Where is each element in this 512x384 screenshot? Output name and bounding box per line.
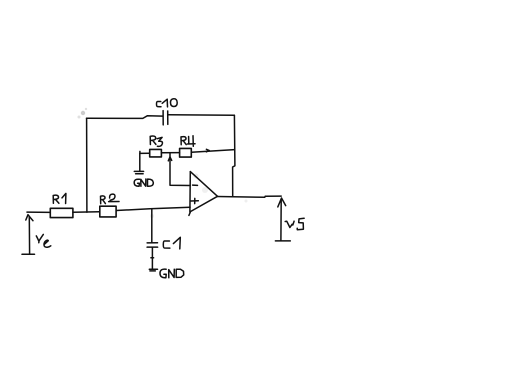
wire output	[218, 196, 282, 197]
label c10	[157, 99, 178, 107]
wire right vertical feedback leg	[233, 115, 235, 196]
ground (C1 branch)	[149, 269, 157, 271]
label GND (C1 branch)	[160, 269, 184, 278]
arrow right on R4 wire	[206, 149, 209, 152]
label R4	[181, 136, 195, 147]
label R3	[150, 136, 162, 146]
wire c1 branch upper	[151, 209, 153, 242]
label c1	[163, 237, 180, 249]
wire R1 to R2	[73, 211, 100, 214]
op-amp U1	[189, 172, 218, 216]
resistor R4	[180, 148, 192, 157]
resistor R3	[150, 149, 162, 157]
label VS	[285, 218, 304, 229]
wire R3 to R4	[161, 152, 179, 154]
capacitor C1	[147, 243, 158, 247]
label R2	[101, 194, 120, 204]
label R1	[53, 193, 66, 203]
capacitor C10	[163, 111, 168, 125]
arrow up on junction wire	[168, 157, 171, 161]
ground (R3 branch)	[134, 171, 143, 173]
wire R2 to noninverting input	[116, 207, 190, 210]
wire input left segment	[27, 211, 50, 213]
node VS arrow	[275, 198, 290, 241]
wire R4 to output node	[191, 150, 234, 153]
wire top feedback right segment	[168, 114, 234, 117]
wire left vertical feedback leg	[86, 118, 88, 212]
wire junction to inverting input	[170, 153, 190, 186]
wire top feedback left segment	[87, 116, 163, 119]
label Ve	[36, 234, 51, 247]
wire R3 left	[140, 151, 150, 153]
wire c1 to ground	[151, 248, 154, 269]
node Ve arrow	[22, 215, 35, 255]
resistor R1	[50, 208, 73, 217]
wire R3 ground branch	[139, 153, 141, 171]
label GND (R3 branch)	[134, 179, 153, 186]
resistor R2	[100, 206, 116, 217]
